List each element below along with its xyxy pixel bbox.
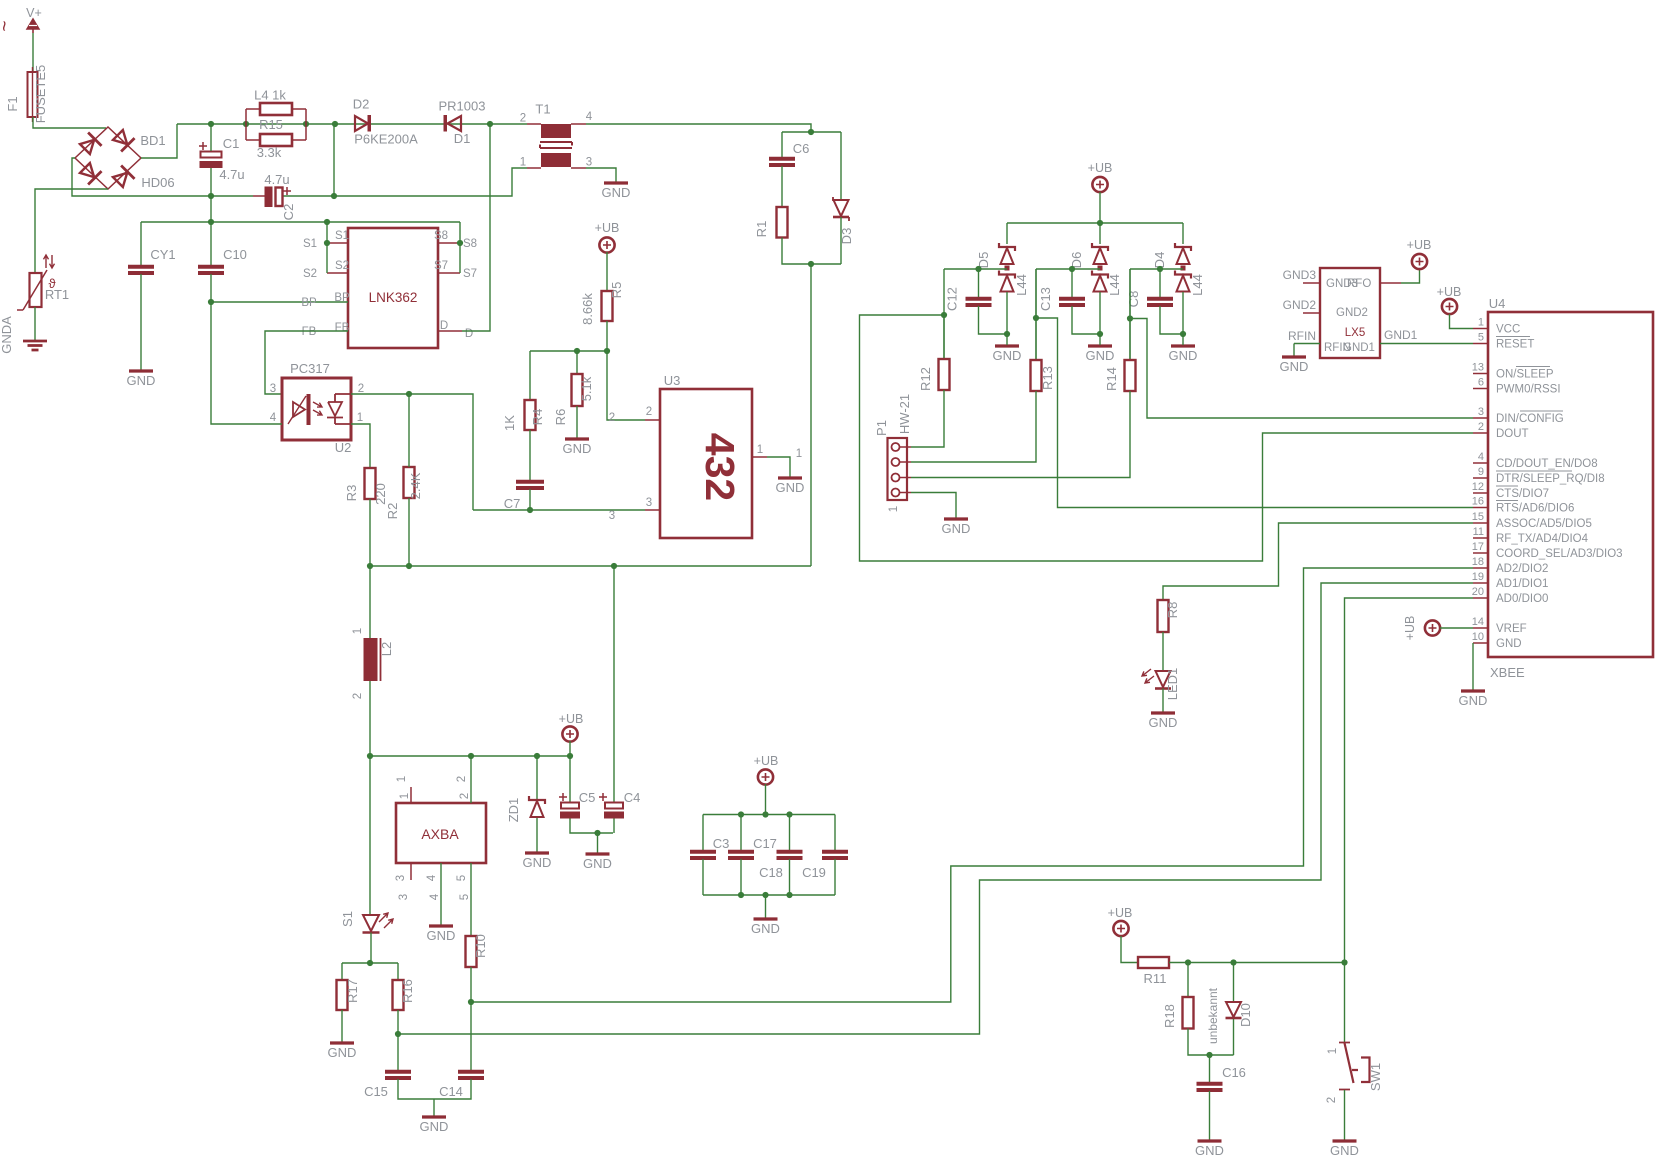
svg-text:GNDA: GNDA (0, 316, 14, 354)
svg-text:+UB: +UB (754, 754, 779, 768)
pin XBEE-2 DOUT (1473, 432, 1488, 434)
wire cap bank top rail (703, 814, 835, 816)
pin XBEE-1 VCC (1473, 328, 1488, 330)
svg-text:RFO: RFO (1347, 278, 1371, 290)
svg-text:FB: FB (335, 322, 350, 334)
wire to C6 (781, 132, 783, 158)
svg-text:5: 5 (459, 894, 471, 900)
capacitor C8 (1159, 269, 1161, 298)
wire C17 top (740, 815, 742, 852)
wire +UB output rail (370, 755, 570, 757)
wire snubber bottom to feedback rail (810, 264, 812, 566)
junction C8 top (1157, 266, 1163, 272)
wire +UB to R11 (1121, 936, 1138, 963)
svg-text:1: 1 (888, 506, 900, 512)
svg-text:DTR/SLEEP_RQ/DI8: DTR/SLEEP_RQ/DI8 (1496, 473, 1605, 485)
wire loop right vertical (305, 109, 307, 140)
IC U4 XBEE (1488, 312, 1653, 657)
wire F1 to bridge AC1 (33, 117, 106, 128)
wire R17 to GND (341, 1010, 343, 1042)
wire to GND (597, 833, 599, 853)
junction L4/R15 right (303, 121, 309, 127)
ground (D4) (1171, 344, 1195, 347)
svg-text:S1: S1 (303, 238, 317, 250)
wire SW1 to GND (1344, 1090, 1346, 1140)
ground (R17) (330, 1041, 354, 1044)
wire R16 bottom (397, 1010, 399, 1034)
+UB supply (758, 769, 773, 784)
zener diode ZD1 (536, 756, 538, 800)
svg-text:3: 3 (1478, 406, 1484, 418)
svg-text:CY1: CY1 (150, 247, 175, 262)
junction C13 top (1069, 266, 1075, 272)
wire S8-S7 tie (459, 222, 461, 273)
svg-text:3: 3 (609, 510, 615, 522)
svg-text:C5: C5 (579, 790, 596, 805)
pin AXBA-4 (440, 863, 442, 925)
junction R2 top (406, 391, 412, 397)
ground (CY1) (129, 369, 153, 372)
pin S1 (327, 242, 348, 244)
svg-text:1: 1 (520, 157, 526, 169)
svg-text:C2: C2 (281, 204, 296, 221)
+UB supply (1425, 620, 1440, 635)
junction S1 column/rail222 (324, 219, 330, 225)
svg-text:GND: GND (1169, 348, 1198, 363)
svg-text:+UB: +UB (559, 712, 584, 726)
svg-text:D2: D2 (353, 97, 370, 112)
svg-text:P1: P1 (874, 420, 889, 436)
wire T1 pin3 to GND (586, 168, 616, 182)
pin XBEE-11 RF_TX/AD4/DIO4 (1473, 537, 1488, 539)
wire L2 to +UB rail (369, 681, 371, 756)
wire divider rail to U3 pin2 (530, 351, 645, 420)
resistor R4 1K (525, 400, 536, 430)
capacitor C4 (polarized) (613, 566, 615, 803)
pin XBEE-17 COORD_SEL/AD3/DIO3 (1473, 552, 1488, 554)
junction C4 branch (611, 563, 617, 569)
zener diode D3 (840, 132, 842, 200)
transformer T1 (527, 123, 541, 125)
wire D4 mid node (1130, 268, 1183, 270)
wire S-pins rail y=222 (141, 221, 460, 223)
resistor R10 (466, 936, 477, 967)
wire S1-S2 tie (326, 222, 328, 273)
resistor R2 2.4K (404, 467, 415, 498)
wire PC317 pin1 to R3 (351, 424, 370, 468)
wire R8 to LED1 (1162, 632, 1164, 671)
svg-text:17: 17 (1472, 541, 1484, 553)
wire PC317 pin4 to BP column (211, 302, 282, 424)
svg-text:FB: FB (302, 326, 317, 338)
svg-text:C15: C15 (364, 1084, 388, 1099)
connector P1 HW-21 (888, 438, 908, 500)
pin S2 (327, 272, 348, 274)
svg-text:4: 4 (586, 111, 593, 123)
wire D5 mid node (944, 268, 1007, 270)
wire zener rail +UB (1007, 222, 1183, 224)
pin XBEE-10 GND (1473, 642, 1488, 644)
overline RESET (1496, 336, 1530, 338)
wire feedback rail (370, 565, 811, 567)
wire R3 bottom (369, 499, 371, 566)
junction C5/+UB (567, 753, 573, 759)
pin P1-3 (892, 474, 900, 482)
svg-text:2: 2 (1326, 1097, 1338, 1103)
IC U1 LNK362 (348, 228, 438, 348)
+UB supply (562, 726, 577, 741)
+UB supply (1442, 299, 1457, 314)
junction R10/railA (468, 999, 474, 1005)
junction S1/L2 (367, 753, 373, 759)
pin XBEE-5 RESET (1473, 343, 1488, 345)
wire to GND (765, 895, 767, 918)
junction C2 branch (332, 121, 338, 127)
svg-text:T1: T1 (535, 102, 550, 117)
wire D4 node to XBEE DIN pin3 (1130, 319, 1473, 419)
svg-text:HW-21: HW-21 (897, 394, 912, 434)
svg-text:11: 11 (1473, 526, 1484, 538)
pin XBEE-19 AD1/DIO1 (1473, 582, 1488, 584)
svg-text:R6: R6 (553, 409, 568, 426)
svg-text:C1: C1 (223, 136, 240, 151)
wire D5 node to DOUT net (860, 315, 1474, 561)
pin XBEE-20 AD0/DIO0 (1473, 597, 1488, 599)
svg-text:1: 1 (399, 793, 411, 799)
svg-text:C10: C10 (223, 247, 247, 262)
ground (C16) (1198, 1139, 1222, 1142)
wire to C14 (470, 1002, 472, 1071)
pin XBEE-9 DTR/SLEEP_RQ/DI8 (1473, 477, 1488, 479)
svg-text:LX5: LX5 (1345, 327, 1365, 339)
wire D6 column (1035, 269, 1037, 318)
resistor R11 (1138, 957, 1169, 968)
pin P1-2 (892, 458, 900, 466)
svg-text:L2: L2 (379, 642, 394, 656)
wire switch rail (1169, 962, 1345, 964)
svg-text:XBEE: XBEE (1490, 665, 1525, 680)
pin XBEE-14 VREF (1473, 627, 1488, 629)
wire RT1 to GNDA (34, 307, 36, 340)
resistor R3 220 (365, 468, 376, 499)
svg-text:3: 3 (270, 383, 276, 395)
wire D6 mid node (1036, 268, 1100, 270)
junction S1/R17/R16 (367, 960, 373, 966)
svg-text:RT1: RT1 (45, 287, 69, 302)
varistor RT1 (30, 273, 42, 307)
wire rail B: R16/C15 node to XBEE pin19 (398, 583, 1473, 1034)
wire bridge + output to main node (141, 124, 177, 158)
pin S8 (438, 242, 460, 244)
pin GND3 (1303, 282, 1320, 284)
pin AXBA-2 (470, 756, 472, 803)
svg-text:R12: R12 (918, 367, 933, 391)
svg-text:3.3k: 3.3k (257, 145, 282, 160)
wire bridge - output rail (left) (72, 158, 253, 196)
junction R18 (1185, 959, 1191, 965)
svg-text:COORD_SEL/AD3/DIO3: COORD_SEL/AD3/DIO3 (1496, 548, 1623, 560)
junction C7/pin3 rail (527, 507, 533, 513)
svg-text:L44: L44 (1107, 274, 1122, 296)
junction ZD1 (534, 753, 540, 759)
svg-text:16: 16 (1472, 496, 1484, 508)
resistor R12 (943, 269, 945, 359)
IC LX5 (RF module) (1320, 268, 1380, 358)
capacitor C12 (978, 269, 980, 298)
svg-text:L44: L44 (1014, 274, 1029, 296)
IC AXBA (regulator) (396, 803, 486, 863)
wire V+ to F1 (32, 33, 34, 72)
diode D2 P6KE200A (TVS) (355, 116, 368, 131)
svg-text:GND: GND (583, 856, 612, 871)
wire R6 top (576, 351, 578, 374)
pin XBEE-6 PWM0/RSSI (1473, 388, 1488, 390)
ground (SW1) (1333, 1139, 1357, 1142)
ground (LED1) (1151, 711, 1175, 714)
capacitor C2 4.7u (polarized, series) (253, 195, 265, 197)
ground (ZD1) (525, 851, 549, 854)
resistor R13 (1031, 360, 1042, 391)
junction +UB rail (1097, 220, 1103, 226)
junction R3/L2 (367, 563, 373, 569)
capacitor C18 (777, 852, 803, 858)
svg-text:HD06: HD06 (141, 175, 174, 190)
svg-text:GND: GND (1330, 1143, 1359, 1158)
zener diode D6 (top, L44) (1099, 223, 1101, 244)
svg-text:12: 12 (1472, 481, 1484, 493)
svg-text:1: 1 (1478, 317, 1484, 329)
wire XBEE pin20 to switch rail (1345, 598, 1474, 963)
wire to GND (433, 1099, 435, 1116)
switch SW1 (1344, 963, 1346, 1043)
pin P1-1 (892, 443, 900, 451)
svg-text:2.4K: 2.4K (408, 472, 423, 499)
wire loop left vertical (245, 109, 247, 140)
svg-text:3: 3 (586, 157, 592, 169)
svg-text:P6KE200A: P6KE200A (354, 132, 418, 147)
wire R2 top (408, 394, 410, 467)
wire C3 top (702, 815, 704, 852)
junction D1/T1/drain (487, 121, 493, 127)
svg-text:R1: R1 (754, 221, 769, 238)
wire C1 top (210, 124, 212, 151)
svg-text:15: 15 (1472, 511, 1484, 523)
junction S1 (324, 240, 330, 246)
svg-text:F1: F1 (5, 96, 20, 111)
svg-text:8.66k: 8.66k (580, 293, 595, 325)
junction D10 (1230, 959, 1236, 965)
svg-text:C14: C14 (439, 1084, 463, 1099)
svg-text:1: 1 (757, 444, 763, 456)
wire T1 pin4 to snubber (586, 124, 811, 132)
wire R6 to GND (576, 406, 578, 438)
wire to R16 (397, 963, 399, 980)
svg-text:C18: C18 (759, 865, 783, 880)
LED LED1 (1156, 671, 1171, 687)
junction D4 bottom/GND (1180, 331, 1186, 337)
svg-text:GND: GND (420, 1119, 449, 1134)
resistor R18 (1183, 997, 1194, 1029)
svg-text:D5: D5 (976, 252, 991, 269)
svg-text:R17: R17 (345, 979, 360, 1003)
wire to R17 (341, 963, 343, 980)
ground (R6) (565, 437, 589, 440)
svg-text:4.7u: 4.7u (219, 167, 244, 182)
junction R16/C15/railB (395, 1031, 401, 1037)
ground (C15/C14) (422, 1115, 446, 1118)
overline SLEEP (1516, 366, 1550, 368)
svg-text:RFIN: RFIN (1288, 329, 1316, 343)
svg-text:1K: 1K (502, 415, 517, 431)
capacitor C7 (516, 482, 544, 488)
svg-text:AD2/DIO2: AD2/DIO2 (1496, 563, 1548, 575)
junction D6 bottom/GND (1097, 331, 1103, 337)
junction C1 top (208, 121, 214, 127)
svg-text:2: 2 (1478, 421, 1484, 433)
wire D6 node to XBEE RTS pin16 (1036, 318, 1473, 508)
svg-text:9: 9 (1478, 466, 1484, 478)
svg-text:ASSOC/AD5/DIO5: ASSOC/AD5/DIO5 (1496, 518, 1592, 530)
svg-text:GND2: GND2 (1283, 298, 1317, 312)
junction C1-/rail (208, 193, 214, 199)
svg-text:GND: GND (1459, 693, 1488, 708)
wire to R14 (1129, 319, 1131, 361)
svg-text:R3: R3 (344, 485, 359, 502)
junction S8 (457, 240, 463, 246)
svg-text:+UB: +UB (1088, 161, 1113, 175)
svg-text:1: 1 (796, 448, 802, 460)
svg-text:D: D (465, 328, 473, 340)
svg-text:5: 5 (1478, 332, 1484, 344)
ground (T1) (604, 181, 628, 184)
ground (D5) (995, 344, 1019, 347)
wire GND1 to XBEE RESET (1380, 343, 1473, 345)
svg-text:D6: D6 (1069, 252, 1084, 269)
resistor R5 8.66k (602, 291, 613, 321)
svg-text:R5: R5 (609, 282, 624, 299)
svg-text:R18: R18 (1162, 1004, 1177, 1028)
wire snubber top (782, 131, 841, 133)
wire main node to T1 pin2 (177, 123, 527, 125)
svg-text:GND: GND (751, 921, 780, 936)
svg-text:GND: GND (328, 1045, 357, 1060)
wire to R13 (1035, 318, 1037, 360)
svg-text:R10: R10 (473, 934, 488, 958)
svg-text:10: 10 (1472, 631, 1484, 643)
pin XBEE-4 CD/DOUT_EN/DO8 (1473, 462, 1488, 464)
svg-text:GND: GND (127, 373, 156, 388)
capacitor C10 (210, 196, 212, 222)
junction C10/rail222 (208, 219, 214, 225)
wire RFIN (1294, 343, 1320, 345)
overline RTS (1496, 500, 1518, 502)
pin AXBA-1 (nc) (410, 787, 412, 803)
svg-text:DOUT: DOUT (1496, 428, 1529, 440)
overline CONFIG (1520, 410, 1563, 412)
wire to R12 (943, 315, 945, 359)
svg-text:2: 2 (456, 776, 468, 782)
svg-text:GND: GND (427, 928, 456, 943)
wire +UB to VCC (1450, 314, 1474, 329)
wire FB to PC317 pin3 (265, 331, 348, 394)
pin U3-1 to GND (752, 456, 767, 458)
svg-text:GND1: GND1 (1343, 342, 1375, 354)
resistor R15 3.3k (parallel bottom element) (260, 134, 292, 146)
svg-text:220: 220 (373, 483, 388, 505)
svg-text:CD/DOUT_EN/DO8: CD/DOUT_EN/DO8 (1496, 458, 1598, 470)
svg-text:ON/SLEEP: ON/SLEEP (1496, 369, 1554, 381)
wire C18 top (789, 815, 791, 852)
svg-text:2: 2 (520, 113, 526, 125)
capacitor C14 (458, 1072, 484, 1078)
svg-text:S2: S2 (303, 268, 317, 280)
inductor L2 (369, 566, 371, 638)
resistor R1 (777, 207, 788, 238)
+UB supply (599, 237, 614, 252)
junction SW1/pin20 (1341, 959, 1347, 965)
pin GND2 (1303, 312, 1320, 314)
wire LED1 to GND (1162, 689, 1164, 713)
IC U3 432 (shunt reference) (660, 389, 752, 538)
wire C10 bottom to BP node (210, 274, 212, 302)
svg-text:SW1: SW1 (1368, 1063, 1383, 1091)
wire R5 bottom (606, 321, 608, 351)
wire R12 to P1 pin1 (911, 390, 944, 447)
svg-text:AD1/DIO1: AD1/DIO1 (1496, 578, 1548, 590)
svg-text:CTS/DIO7: CTS/DIO7 (1496, 488, 1549, 500)
svg-text:+UB: +UB (1403, 616, 1417, 641)
junction D5 bottom/GND (1004, 331, 1010, 337)
pin D (438, 330, 462, 332)
svg-text:AXBA: AXBA (421, 826, 459, 842)
wire +UB to R5 (606, 252, 608, 291)
junction BP node (208, 299, 214, 305)
wire C15/C14 bottoms (398, 1079, 471, 1099)
PC317 internal phototransistor/diode (327, 394, 351, 424)
svg-text:18: 18 (1472, 556, 1484, 568)
svg-text:R14: R14 (1104, 367, 1119, 391)
svg-text:2: 2 (609, 412, 615, 424)
wire R1 bottom / snubber bottom (782, 238, 841, 265)
svg-text:GND: GND (1195, 1143, 1224, 1158)
svg-text:C7: C7 (504, 496, 521, 511)
svg-text:VREF: VREF (1496, 623, 1527, 635)
svg-text:R8: R8 (1165, 602, 1180, 619)
svg-text:R2: R2 (385, 503, 400, 520)
svg-text:GND: GND (1280, 359, 1309, 374)
wire R10 bottom (470, 967, 472, 1002)
svg-text:6: 6 (1478, 377, 1484, 389)
wire to R4 (529, 351, 531, 400)
pin AXBA-3 (nc) (410, 863, 412, 880)
svg-text:2: 2 (358, 383, 364, 395)
wire R13 to P1 pin2 (911, 391, 1036, 462)
junction D5 branch (941, 312, 947, 318)
diode D1 PR1003 (444, 115, 448, 132)
fuse F1 (FUSETE5) (28, 72, 38, 117)
wire P1 pin4 to GND (911, 493, 956, 519)
svg-text:GND: GND (776, 480, 805, 495)
svg-text:GND: GND (993, 348, 1022, 363)
junction C16 (1206, 1052, 1212, 1058)
wire to R18 (1187, 963, 1189, 998)
PC317 internal LED (288, 396, 306, 424)
zener diode D6 (bottom, L44) (1098, 266, 1103, 271)
svg-text:C6: C6 (793, 141, 810, 156)
capacitor C3 (690, 852, 716, 858)
svg-text:3: 3 (398, 894, 410, 900)
capacitor C1 4.7u (polarized) (199, 142, 207, 150)
